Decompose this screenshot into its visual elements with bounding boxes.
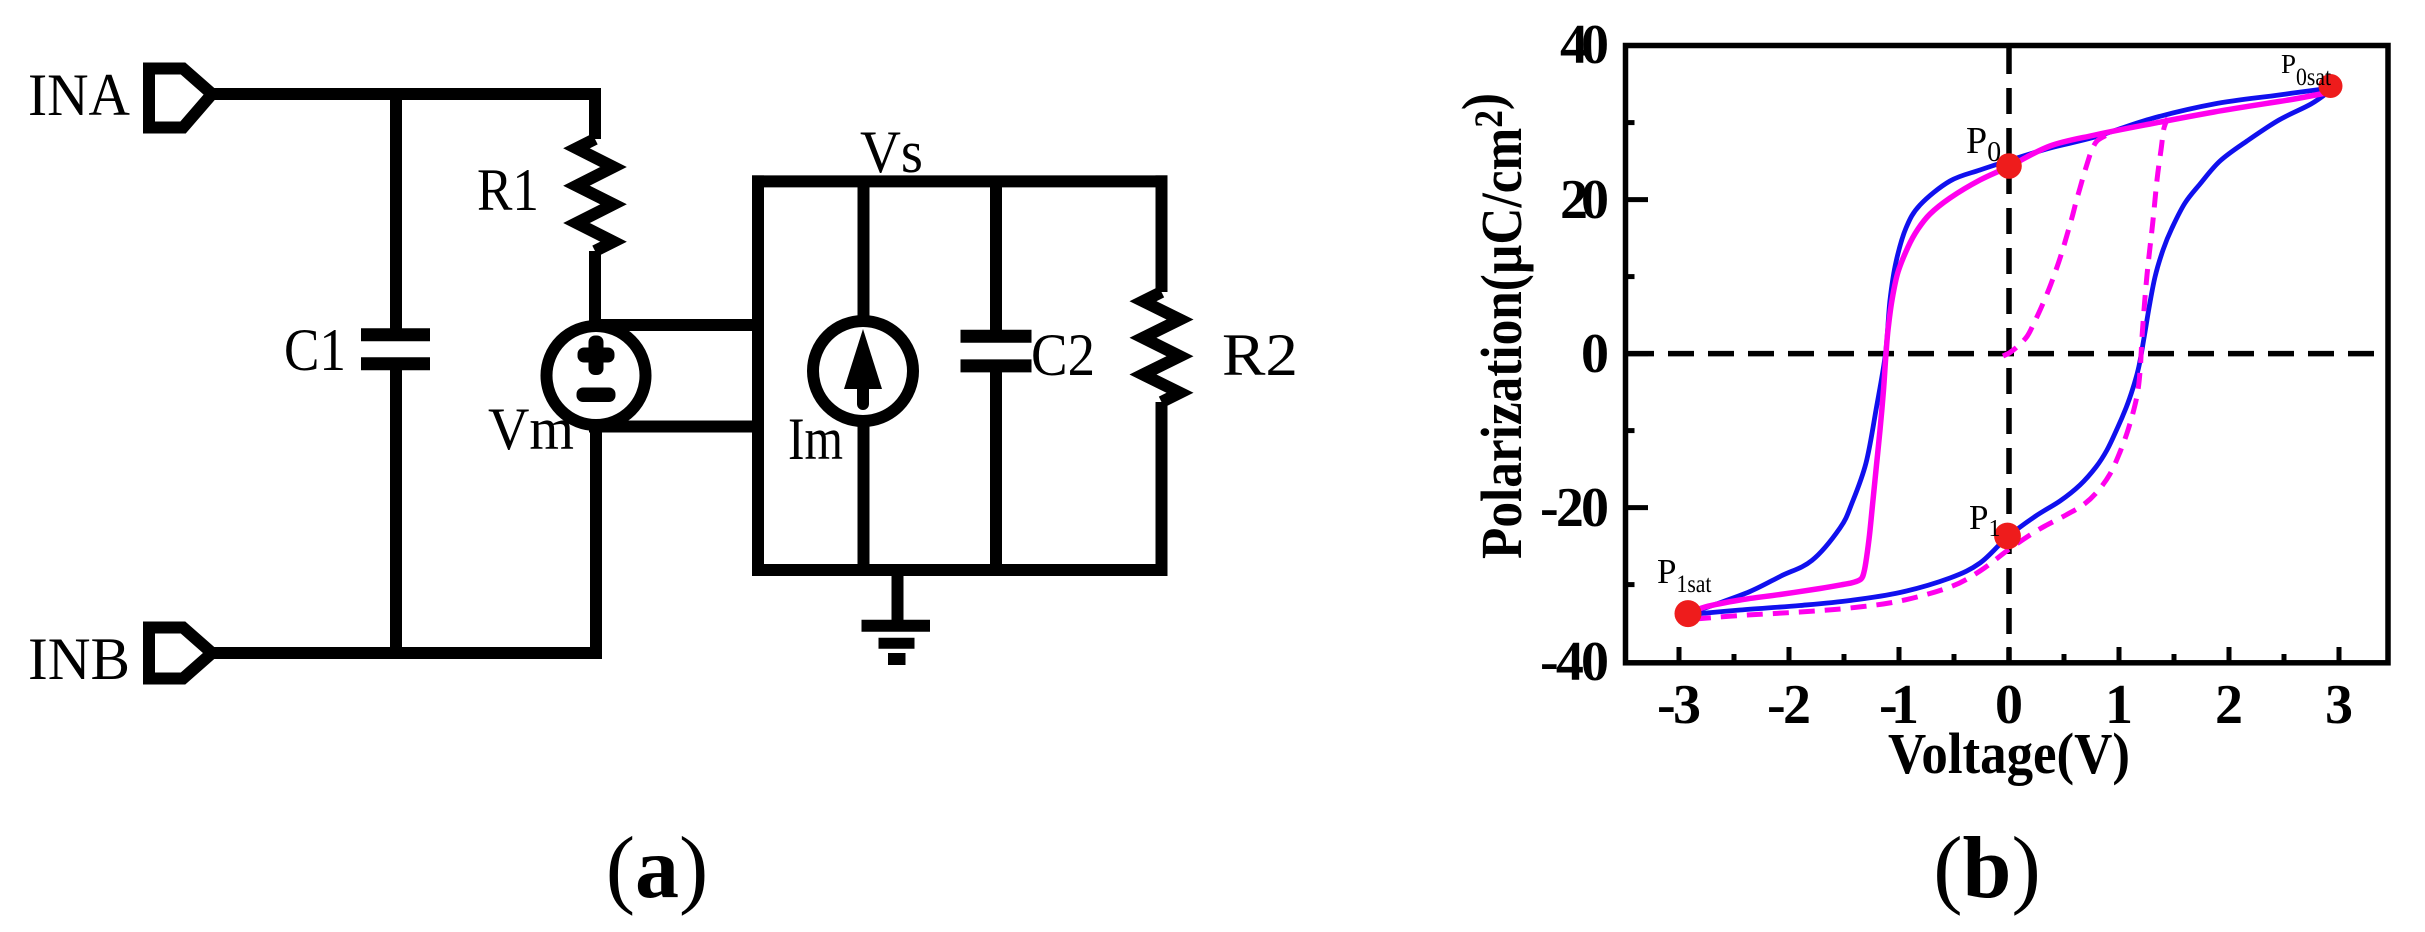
svg-text:Vs: Vs (860, 119, 923, 185)
resistor R1 (577, 139, 614, 251)
magenta solid curve (1690, 92, 2331, 613)
block right edge top wire (1156, 175, 1168, 292)
svg-text:0: 0 (1581, 323, 1609, 385)
svg-text:40: 40 (1560, 14, 1609, 76)
chart ticks (1626, 123, 2339, 661)
svg-text:-20: -20 (1540, 477, 1609, 539)
blue hysteresis loop upper branch (1692, 88, 2331, 613)
svg-text:P1sat: P1sat (1657, 552, 1712, 598)
block right edge bottom wire (1156, 402, 1168, 576)
voltage source Vm (547, 326, 646, 425)
current source Im (813, 321, 913, 421)
svg-text:-3: -3 (1657, 674, 1701, 736)
svg-text:Voltage(V): Voltage(V) (1888, 721, 2130, 786)
svg-text:3: 3 (2325, 674, 2353, 736)
block bottom edge wire (752, 564, 1168, 576)
point P1 (1994, 523, 2021, 550)
svg-text:-2: -2 (1767, 674, 1811, 736)
terminal INA (149, 69, 212, 128)
wire Im branch (858, 181, 870, 570)
svg-text:20: 20 (1560, 169, 1609, 231)
svg-text:P0: P0 (1966, 120, 2001, 168)
svg-text:C2: C2 (1031, 322, 1095, 388)
wire C1 bottom branch (390, 370, 402, 659)
wire C1 top branch (390, 88, 402, 329)
x tick labels (1657, 674, 2353, 736)
svg-text:R2: R2 (1222, 322, 1298, 388)
terminal INB (149, 628, 212, 679)
wire R1 to Vm (589, 251, 601, 330)
svg-text:(a): (a) (606, 820, 709, 917)
svg-text:R1: R1 (477, 157, 539, 223)
point P1sat (1675, 600, 1702, 627)
magenta dashed curve left (2003, 134, 2112, 357)
svg-text:Vm: Vm (488, 396, 574, 462)
svg-text:INA: INA (28, 62, 130, 128)
capacitor C1 (361, 335, 430, 364)
point P0sat (2319, 74, 2343, 98)
point P0 (1996, 153, 2022, 179)
block top edge wire (752, 175, 1168, 187)
wire C2 branch bottom (990, 363, 1002, 570)
block left edge wire (752, 175, 764, 576)
svg-text:C1: C1 (284, 317, 346, 383)
chart zero dashed lines (1628, 48, 2388, 662)
svg-text:Polarization(µC/cm2): Polarization(µC/cm2) (1450, 93, 1534, 559)
y tick labels (1540, 14, 1609, 693)
wire Vm to block bottom (589, 421, 764, 433)
svg-text:2: 2 (2215, 674, 2243, 736)
svg-text:Im: Im (788, 406, 843, 472)
wire INB to Vm corner (212, 420, 596, 653)
capacitor C2 (961, 336, 1032, 366)
magenta dashed curve right (1695, 118, 2168, 619)
ground (862, 570, 931, 659)
svg-text:INB: INB (28, 626, 130, 692)
wire C2 branch top (990, 181, 1002, 339)
wire Vm to block top (589, 319, 764, 331)
resistor R2 (1143, 292, 1180, 402)
svg-text:(b): (b) (1933, 820, 2041, 917)
svg-text:P1: P1 (1969, 498, 2000, 542)
chart axis box (1626, 46, 2389, 663)
svg-text:-40: -40 (1540, 631, 1609, 693)
wire INA to R1 corner (212, 94, 595, 139)
svg-text:P0sat: P0sat (2281, 49, 2331, 91)
blue hysteresis loop lower branch (1690, 90, 2331, 615)
